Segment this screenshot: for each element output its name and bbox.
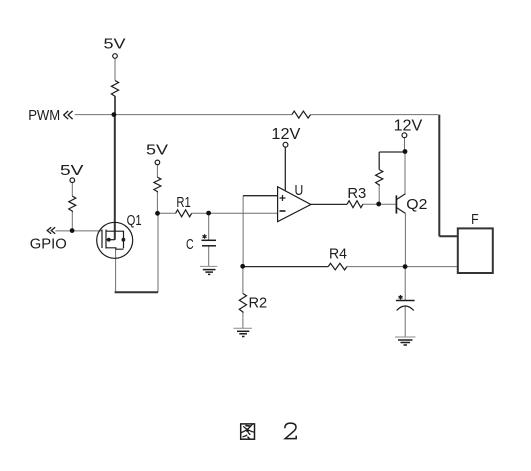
svg-text:U: U bbox=[295, 183, 304, 199]
svg-text:5V: 5V bbox=[60, 163, 84, 179]
svg-text:Q2: Q2 bbox=[406, 197, 427, 213]
svg-text:12V: 12V bbox=[394, 117, 423, 134]
svg-text:F: F bbox=[471, 212, 479, 228]
svg-text:5V: 5V bbox=[146, 143, 168, 159]
svg-text:R3: R3 bbox=[347, 186, 366, 202]
svg-text:C: C bbox=[186, 237, 194, 253]
svg-text:R2: R2 bbox=[249, 295, 268, 311]
svg-text:GPIO: GPIO bbox=[30, 237, 67, 253]
svg-text:R4: R4 bbox=[329, 247, 347, 263]
svg-text:5V: 5V bbox=[104, 37, 126, 53]
svg-text:12V: 12V bbox=[271, 126, 301, 143]
svg-text:Q1: Q1 bbox=[127, 213, 142, 229]
svg-text:R1: R1 bbox=[176, 195, 190, 211]
svg-text:PWM: PWM bbox=[28, 108, 60, 124]
